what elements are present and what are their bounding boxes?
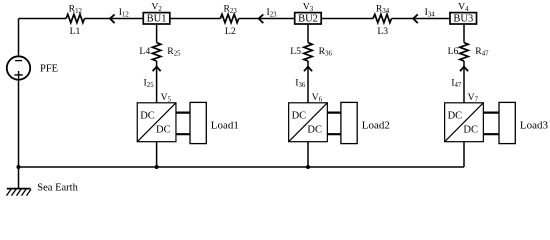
svg-text:L5: L5 xyxy=(290,46,301,57)
current arrow I23 xyxy=(259,14,264,23)
wire BU3 to L6 xyxy=(463,24,465,43)
resistor R34 xyxy=(373,14,391,22)
junction dot load2 xyxy=(306,165,310,169)
DC/DC converter 3 xyxy=(445,103,484,142)
label Load3 xyxy=(520,120,549,132)
label L5 xyxy=(290,46,301,57)
label BU1 xyxy=(147,14,167,25)
wire top bus segment (BU1 to R23) xyxy=(170,18,221,20)
current arrow I12 xyxy=(110,14,115,23)
connector bars converter 2 to Load2 xyxy=(327,113,341,135)
current arrow I36 xyxy=(304,67,312,72)
wire DC/DC 1 to bottom bus xyxy=(156,142,158,167)
node V7 xyxy=(468,92,479,104)
resistor L5 / R36 (vertical) xyxy=(304,43,312,61)
node V5 xyxy=(161,92,172,104)
svg-text:Load1: Load1 xyxy=(211,120,239,132)
label L3 xyxy=(377,26,388,37)
label R34 xyxy=(376,4,390,16)
svg-text:R34: R34 xyxy=(376,4,390,16)
svg-text:R25: R25 xyxy=(167,46,181,58)
node V4 xyxy=(458,1,469,13)
svg-text:R36: R36 xyxy=(319,46,333,58)
wire top bus segment (R34 to BU3) xyxy=(392,18,451,20)
ground hatch marks xyxy=(7,189,32,195)
DC/DC converter 1 xyxy=(137,103,176,142)
svg-text:I12: I12 xyxy=(119,7,130,19)
label L6 xyxy=(448,46,459,57)
label R12 xyxy=(69,4,83,16)
wire ground stub xyxy=(18,167,20,189)
label L2 xyxy=(225,26,236,37)
label DC (bottom) converter 3 xyxy=(463,125,478,136)
wire top bus segment (left corner to R12) xyxy=(19,18,67,20)
svg-text:V4: V4 xyxy=(458,1,469,13)
svg-text:PFE: PFE xyxy=(40,63,58,74)
label I12 xyxy=(119,7,130,19)
svg-text:V2: V2 xyxy=(151,1,162,13)
svg-text:R47: R47 xyxy=(475,46,489,58)
load box Load1 xyxy=(190,102,206,143)
svg-text:V6: V6 xyxy=(312,92,323,104)
label DC (bottom) converter 2 xyxy=(307,125,322,136)
svg-text:I47: I47 xyxy=(451,77,462,89)
svg-text:DC: DC xyxy=(307,125,322,136)
junction dot left xyxy=(17,165,21,169)
svg-text:I34: I34 xyxy=(425,7,436,19)
bus unit BU2 xyxy=(295,13,322,24)
label L1 xyxy=(70,26,81,37)
label R23 xyxy=(223,4,237,16)
wire BU1 to L4 xyxy=(156,24,158,43)
current arrow I47 xyxy=(460,67,468,72)
svg-text:Load2: Load2 xyxy=(362,120,390,132)
node V2 xyxy=(151,1,162,13)
svg-text:DC: DC xyxy=(156,125,171,136)
svg-text:V3: V3 xyxy=(303,1,314,13)
label I23 xyxy=(266,7,277,19)
label I47 xyxy=(451,77,462,89)
svg-text:DC: DC xyxy=(463,125,478,136)
resistor L4 / R25 (vertical) xyxy=(152,43,160,61)
svg-text:Load3: Load3 xyxy=(520,120,549,132)
wire top bus segment (R12 to BU1) xyxy=(85,18,144,20)
wire left drop (bus to source) xyxy=(18,19,20,57)
source minus sign xyxy=(15,60,22,62)
svg-text:DC: DC xyxy=(292,111,307,122)
bus unit BU1 xyxy=(143,13,170,24)
label DC (top) converter 1 xyxy=(140,111,155,122)
svg-text:R23: R23 xyxy=(223,4,237,16)
node V3 xyxy=(303,1,314,13)
label R47 xyxy=(475,46,489,58)
bus unit BU3 xyxy=(450,13,477,24)
svg-text:DC: DC xyxy=(448,111,463,122)
label DC (top) converter 3 xyxy=(448,111,463,122)
wire BU2 to L5 xyxy=(307,24,309,43)
svg-text:L4: L4 xyxy=(139,46,150,57)
label R36 xyxy=(319,46,333,58)
connector bars converter 1 to Load1 xyxy=(176,113,190,135)
svg-text:BU3: BU3 xyxy=(453,14,473,25)
label L4 xyxy=(139,46,150,57)
label Load2 xyxy=(362,120,390,132)
svg-text:V5: V5 xyxy=(161,92,172,104)
junction dot load1 xyxy=(155,165,159,169)
svg-text:DC: DC xyxy=(140,111,155,122)
svg-text:V7: V7 xyxy=(468,92,479,104)
svg-text:R12: R12 xyxy=(69,4,83,16)
current arrow I25 xyxy=(153,67,161,72)
svg-text:I36: I36 xyxy=(295,77,306,89)
wire top bus segment (BU2 to R34) xyxy=(321,18,373,20)
svg-text:L3: L3 xyxy=(377,26,388,37)
wire DC/DC 2 to bottom bus xyxy=(307,142,309,167)
ground (sea earth) bar xyxy=(7,188,31,190)
wire right riser (bottom bus to DC/DC 3) xyxy=(463,142,465,167)
resistor R12 xyxy=(66,14,84,22)
resistor R23 xyxy=(220,14,238,22)
load box Load2 xyxy=(341,102,357,143)
svg-text:I23: I23 xyxy=(266,7,277,19)
wire L6 to DC/DC 3 xyxy=(463,61,465,103)
svg-text:L2: L2 xyxy=(225,26,236,37)
label I34 xyxy=(425,7,436,19)
svg-text:L1: L1 xyxy=(70,26,81,37)
label DC (top) converter 2 xyxy=(292,111,307,122)
DC/DC converter 2 xyxy=(289,103,328,142)
label PFE xyxy=(40,63,58,74)
label Load1 xyxy=(211,120,239,132)
label R25 xyxy=(167,46,181,58)
label BU2 xyxy=(298,14,318,25)
voltage source PFE xyxy=(7,56,30,79)
wire L4 to DC/DC 1 xyxy=(156,61,158,103)
label I25 xyxy=(144,77,155,89)
label DC (bottom) converter 1 xyxy=(156,125,171,136)
load box Load3 xyxy=(499,102,515,143)
label I36 xyxy=(295,77,306,89)
source plus sign xyxy=(14,71,22,79)
wire top bus segment (R23 to BU2) xyxy=(239,18,295,20)
svg-text:BU2: BU2 xyxy=(298,14,318,25)
svg-text:I25: I25 xyxy=(144,77,155,89)
node V6 xyxy=(312,92,323,104)
label BU3 xyxy=(453,14,473,25)
current arrow I34 xyxy=(413,14,418,23)
wire bottom bus xyxy=(19,166,465,168)
svg-text:Sea Earth: Sea Earth xyxy=(37,183,78,194)
resistor L6 / R47 (vertical) xyxy=(460,43,468,61)
label Sea Earth xyxy=(37,183,78,194)
connector bars converter 3 to Load3 xyxy=(483,113,499,135)
wire left drop (source to bottom bus) xyxy=(18,80,20,167)
svg-text:BU1: BU1 xyxy=(147,14,167,25)
svg-text:L6: L6 xyxy=(448,46,459,57)
wire L5 to DC/DC 2 xyxy=(307,61,309,103)
